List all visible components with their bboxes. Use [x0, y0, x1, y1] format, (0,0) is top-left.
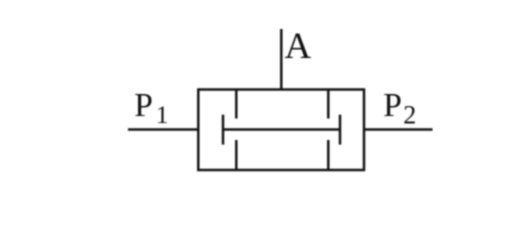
movable middle rod (node between plates) — [223, 128, 340, 131]
svg-text:2: 2 — [403, 101, 416, 130]
right fixed electrode, lower segment — [327, 140, 330, 170]
wire: terminal A lead (top) — [280, 29, 283, 90]
right fixed electrode, upper segment — [327, 90, 330, 119]
wire: terminal P1 lead (left) — [128, 128, 198, 131]
svg-text:P: P — [383, 87, 402, 124]
left movable plate — [222, 115, 225, 145]
svg-text:A: A — [285, 26, 312, 67]
right movable plate — [339, 115, 342, 145]
left fixed electrode, lower segment — [235, 140, 238, 170]
node label P1 — [134, 87, 168, 129]
svg-text:P: P — [134, 87, 153, 124]
node label A — [285, 26, 312, 67]
wire: terminal P2 lead (right) — [364, 128, 433, 131]
housing box (transducer body) — [198, 90, 364, 171]
node label P2 — [383, 87, 416, 130]
svg-text:1: 1 — [156, 100, 169, 129]
left fixed electrode, upper segment — [235, 90, 238, 119]
